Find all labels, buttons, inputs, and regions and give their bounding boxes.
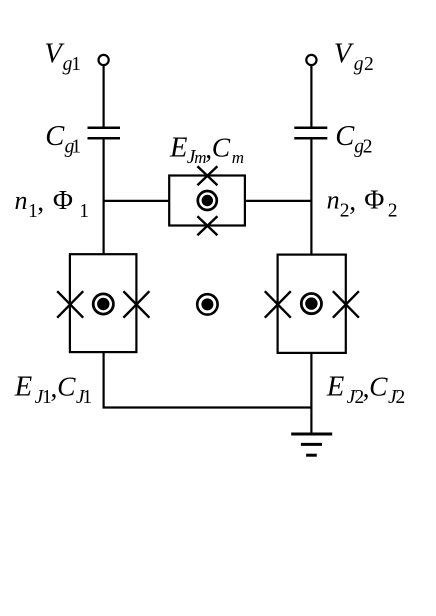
svg-text:C: C	[369, 371, 388, 402]
svg-text:2: 2	[363, 136, 373, 157]
svg-text:n: n	[327, 185, 340, 214]
svg-text:C: C	[45, 121, 65, 152]
svg-text:1: 1	[82, 387, 92, 408]
svg-text:1: 1	[79, 201, 89, 222]
svg-text:Φ: Φ	[364, 183, 384, 214]
svg-text:Φ: Φ	[53, 184, 73, 215]
svg-text:V: V	[334, 39, 355, 70]
svg-text:2: 2	[396, 387, 406, 408]
svg-text:C: C	[335, 121, 355, 152]
svg-text:E: E	[14, 371, 32, 402]
svg-text:,: ,	[37, 185, 44, 216]
svg-text:2: 2	[364, 54, 374, 75]
svg-text:n: n	[15, 186, 28, 215]
svg-text:E: E	[326, 372, 344, 403]
svg-text:C: C	[212, 132, 231, 163]
svg-text:1: 1	[71, 136, 81, 157]
svg-text:,: ,	[349, 185, 356, 216]
svg-text:m: m	[232, 148, 244, 167]
svg-text:C: C	[57, 370, 76, 401]
svg-text:2: 2	[340, 200, 350, 221]
svg-text:g: g	[354, 54, 364, 75]
svg-text:E: E	[169, 133, 187, 164]
svg-text:2: 2	[388, 200, 398, 221]
svg-text:1: 1	[71, 54, 81, 75]
